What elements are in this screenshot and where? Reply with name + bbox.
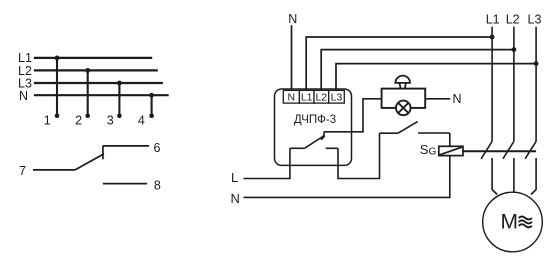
svg-text:1: 1	[44, 114, 51, 128]
switch blade 7-6	[75, 154, 104, 170]
relay coil SG box	[439, 146, 463, 155]
phase L2 lower wire to motor	[513, 158, 515, 192]
wire L2 bus line	[34, 69, 158, 71]
relay terminal box N	[283, 90, 299, 103]
junction dot on N bus at terminal 4	[149, 93, 154, 98]
mechanical linkage from coil to contactor blades	[463, 150, 536, 152]
junction dot on L1 bus at terminal 1	[55, 56, 60, 61]
test switch right arm	[418, 132, 450, 134]
wire lower arm down and right to test switch	[338, 133, 380, 178]
terminal 1 end dot	[55, 114, 60, 119]
wire drop to terminal 1	[56, 58, 58, 116]
relay U1 body (rounded box)	[275, 89, 352, 165]
relay terminal box L1	[299, 90, 314, 103]
relay terminal box L3	[329, 90, 345, 103]
motor three-phase tilde 3	[519, 224, 532, 227]
relay internal contact blade	[305, 136, 325, 149]
lamp housing rectangle	[382, 89, 426, 108]
svg-text:7: 7	[19, 164, 26, 178]
svg-text:N: N	[288, 92, 296, 104]
wire from fixed contact out of relay to lamp branch	[324, 99, 382, 132]
junction dot phase L2 tap	[512, 47, 517, 52]
wire terminal 6 arm	[103, 145, 149, 147]
svg-text:N: N	[453, 92, 462, 106]
lamp HL cross stroke 1	[398, 103, 408, 113]
svg-text:L2: L2	[315, 92, 327, 104]
svg-text:L2: L2	[506, 13, 520, 27]
contactor contact blade L1	[481, 141, 492, 158]
wire drop to terminal 3	[118, 83, 120, 116]
wire N stem from relay terminal up	[291, 25, 293, 90]
terminal 4 end dot	[149, 114, 154, 119]
test switch left arm	[380, 132, 399, 134]
phase L3 lower wire to motor	[531, 158, 536, 195]
svg-text:8: 8	[154, 179, 161, 193]
svg-text:L: L	[231, 170, 238, 185]
wire switch to coil SG top	[449, 133, 451, 146]
wire lamp to N	[425, 98, 450, 100]
terminal 3 end dot	[117, 114, 122, 119]
svg-text:3: 3	[107, 114, 114, 128]
lamp HL cross stroke 2	[398, 103, 408, 113]
relay internal contact: common arm from L	[290, 147, 305, 149]
contact 6 tick	[102, 146, 104, 159]
test switch blade	[398, 122, 418, 134]
junction dot on L3 bus at terminal 3	[117, 81, 122, 86]
phase L1 lower wire to motor	[492, 158, 497, 195]
svg-text:N: N	[231, 191, 240, 206]
motor three-phase tilde 1	[519, 216, 532, 219]
svg-text:L1: L1	[486, 13, 500, 27]
pushbutton stem right	[405, 83, 406, 89]
svg-text:N: N	[19, 89, 28, 103]
wire drop to terminal 4	[151, 95, 153, 116]
wire N bus line	[34, 94, 169, 96]
relay terminal box L2	[314, 90, 329, 103]
pushbutton dome (lamp test button)	[395, 76, 410, 83]
svg-text:ДЧПФ-3: ДЧПФ-3	[294, 114, 336, 126]
phase L3 upper wire	[535, 27, 537, 142]
wire terminal 8 arm	[103, 183, 147, 185]
wire L2 from relay terminal to phase L2	[321, 50, 514, 90]
wire L1 bus line	[34, 57, 152, 59]
junction dot on L2 bus at terminal 2	[85, 68, 90, 73]
phase L2 upper wire	[513, 27, 515, 142]
contactor contact blade L3	[525, 141, 536, 158]
relay internal fixed contact tick	[323, 132, 325, 137]
motor three-phase tilde 2	[519, 220, 532, 223]
svg-text:SG: SG	[420, 142, 437, 158]
wire L1 from relay terminal to phase L1	[306, 37, 492, 90]
svg-text:L3: L3	[528, 13, 542, 27]
junction dot phase L3 tap	[534, 61, 539, 66]
wire drop to terminal 2	[87, 70, 89, 115]
lamp HL circle	[396, 101, 411, 116]
svg-text:6: 6	[154, 141, 161, 155]
wire N supply to relay coil SG	[243, 156, 449, 198]
svg-text:2: 2	[75, 114, 82, 128]
terminal 2 end dot	[85, 114, 90, 119]
wire terminal 7 arm	[33, 169, 75, 171]
relay internal lower arm	[326, 147, 338, 149]
relay internal contact blade tip barb	[321, 136, 324, 140]
wire L supply into relay	[243, 148, 290, 178]
wire L3 bus line	[34, 82, 163, 84]
svg-text:M: M	[501, 210, 519, 233]
contactor contact blade L2	[503, 141, 514, 158]
svg-text:4: 4	[138, 114, 145, 128]
svg-text:L3: L3	[331, 92, 343, 104]
pushbutton stem left	[400, 83, 401, 89]
phase L1 upper wire	[491, 27, 493, 142]
svg-text:N: N	[288, 12, 297, 26]
svg-text:L1: L1	[301, 92, 313, 104]
junction dot phase L1 tap	[490, 35, 495, 40]
motor M circle	[483, 192, 543, 252]
relay coil SG diagonal	[440, 147, 463, 155]
wire L3 from relay terminal to phase L3	[336, 64, 536, 90]
